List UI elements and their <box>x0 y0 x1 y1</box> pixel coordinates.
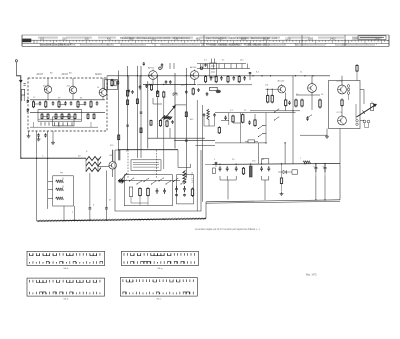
small blob component near S2 <box>210 87 221 93</box>
wire horizontal mid link <box>115 149 120 151</box>
wire driver stage bottom rail <box>250 110 300 112</box>
cluster below diagonal pot <box>150 120 174 128</box>
wire bus bottom-left chassis <box>37 219 206 221</box>
resistor R32 output <box>301 99 303 108</box>
svg-text:AF116: AF116 <box>148 67 155 70</box>
IF transformer can S2 <box>210 63 217 77</box>
switch contact driver 2 <box>274 117 279 121</box>
junction dots bottom bus <box>63 218 177 221</box>
resistor R31 output <box>295 99 297 108</box>
switch contact 4 <box>143 178 148 182</box>
capacitor C40 power <box>215 162 218 167</box>
switch contact audio 1 <box>258 125 266 129</box>
wire TS11 to rail <box>311 76 313 84</box>
wire mid link right <box>175 104 186 106</box>
front-end third mini row ticks <box>41 122 72 125</box>
thermistor column in output box <box>347 85 350 100</box>
transistor TS11 phase splitter <box>308 82 317 110</box>
extra top cluster verticals <box>201 64 248 69</box>
top cluster rail upper <box>197 63 246 65</box>
trimmer capacitor C1 on box edge <box>27 99 30 103</box>
wires from potentiometer box to bus <box>64 206 75 221</box>
dial scale lower meter-band numerals <box>40 43 377 46</box>
switch wafer SK-b bottom contact row <box>29 261 102 264</box>
pot box left entry stubs <box>48 182 53 199</box>
IF can S2 top stubs <box>212 59 215 64</box>
front-end component row1 item 9 (capacitor) <box>84 101 87 105</box>
wire driver stage rail <box>250 75 330 77</box>
switch row link wire <box>118 179 180 181</box>
IF cluster component 4 (capacitor) <box>220 76 223 81</box>
wire IF strip signal rail <box>107 75 250 77</box>
junction dots B+ rail <box>219 163 325 165</box>
switch wafer SK-v bottom contact row <box>123 292 193 295</box>
second small box around vertical zigzag <box>177 175 194 204</box>
junction dots on rail <box>252 75 313 76</box>
wire long vertical a <box>118 71 120 161</box>
electrolytic C47 power <box>322 164 326 176</box>
capacitor C42 power <box>226 166 229 171</box>
capacitor C31 driver emitter <box>288 101 291 105</box>
wire long vertical b2 <box>140 66 142 158</box>
wire power vertical x285 up <box>284 143 286 164</box>
output stage box <box>329 81 361 129</box>
components mounted on long verticals <box>118 90 188 141</box>
svg-text:AF116: AF116 <box>95 73 102 76</box>
IF cluster component 3 (resistor) <box>215 75 217 83</box>
component top right small <box>356 64 358 80</box>
wire x178 vertical <box>178 150 191 168</box>
IF cluster component 5 (resistor) <box>227 75 229 83</box>
wire detector rail <box>143 84 196 86</box>
svg-text:AC125: AC125 <box>278 80 285 83</box>
wire from TS4 up-right corner <box>113 150 178 162</box>
IF cluster component 1 (resistor) <box>205 75 207 83</box>
wire audio vertical x228 <box>228 113 230 125</box>
coil can box L6 <box>53 117 75 126</box>
transistor TS9 output upper <box>337 81 347 94</box>
svg-text:20 — 1,2 V: 20 — 1,2 V <box>191 172 193 183</box>
loudspeaker pointer arrow <box>357 104 377 117</box>
wire driver box corner <box>250 112 296 114</box>
capacitor C30 on rail <box>249 72 252 80</box>
capacitor C16 in switch box <box>163 188 166 194</box>
wire bus lower parallel line <box>206 201 340 203</box>
resistor R18 audio <box>232 115 234 123</box>
wire front-end upper rail <box>30 99 105 101</box>
second top rail <box>197 68 250 70</box>
transistor TS2 mixer <box>69 85 76 100</box>
transistor TS6 IF amplifier 2 <box>190 66 199 85</box>
front-end component row2 item 5 <box>68 113 70 119</box>
small rect component power left <box>212 168 215 174</box>
shield dot above TS6 <box>200 64 206 70</box>
wire bus step vertical <box>205 202 207 219</box>
resistor R22 driver bias <box>271 89 273 104</box>
wire vertical x197 <box>196 100 198 211</box>
switch wafer SK-g bottom contact row <box>124 261 194 264</box>
switch wafer SK-d top contact row <box>30 280 100 283</box>
capacitor C35 output <box>306 116 309 120</box>
switch contact 1 <box>121 180 126 184</box>
transistor TS8 driver <box>278 80 286 93</box>
switch contact 5 <box>151 181 156 185</box>
svg-text:SK-d: SK-d <box>63 298 69 300</box>
IF cluster component 2 (capacitor) <box>210 76 213 81</box>
wire oscillator to transistor <box>98 165 109 167</box>
resistor R14 right of switch box <box>191 188 193 197</box>
wire audio vertical x240 <box>240 113 242 143</box>
svg-text:AF117: AF117 <box>37 73 44 76</box>
wire B+ rail <box>213 163 341 166</box>
transistor TS3 oscillator <box>99 87 107 99</box>
resistor R19 audio <box>241 114 244 124</box>
trimmer capacitor C2 on box edge <box>27 108 30 112</box>
front-end horizontal mini links <box>34 104 86 117</box>
stubs above B+ rail <box>262 159 269 164</box>
IF can S1 top stubs <box>143 62 174 69</box>
capacitor C21 to bus <box>89 202 92 221</box>
switch wafer diagram SK-g box <box>121 251 198 265</box>
capacitor C15 in switch box <box>156 188 159 194</box>
resistor R34 between output transistors <box>341 99 343 117</box>
dial divider lines <box>204 35 345 46</box>
front-end lower connections <box>30 122 98 127</box>
front-end component row2 item 8 <box>93 113 95 119</box>
outer box oscillator-switch section <box>115 150 201 211</box>
wire audio vertical x266 <box>265 113 267 143</box>
resistor chain below TS6 <box>192 88 200 96</box>
inner box switch wafers <box>124 175 172 206</box>
wire front-end middle rail <box>30 112 105 114</box>
oscillator coil zigzag pack <box>86 157 101 173</box>
wire driver base <box>266 88 278 90</box>
wire long vertical b <box>136 66 138 158</box>
detector diode row <box>128 85 209 96</box>
potentiometer R3 zigzag <box>56 197 64 200</box>
switch wafer diagram SK-d box <box>27 278 105 296</box>
switch contact 3 <box>136 181 141 185</box>
top cluster rail lower <box>197 84 252 86</box>
svg-text:AF116: AF116 <box>190 66 197 69</box>
wire box top to rail <box>341 76 343 85</box>
switch contact audio 2 <box>258 133 266 137</box>
mixer output components <box>107 76 119 100</box>
wire long vertical a2 <box>127 66 129 150</box>
dial lower station text <box>40 44 270 47</box>
front-end component row2 item 4 <box>61 113 63 119</box>
wire stub rail to C d2 <box>139 76 141 90</box>
ground symbol output stage <box>325 129 329 139</box>
capacitor C6 below front-end <box>44 133 47 137</box>
wire bus right vertical <box>339 164 341 200</box>
transistor TS1 RF amplifier <box>44 85 51 100</box>
svg-text:PRAGUE · VIENNE · BUDAPEST · R: PRAGUE · VIENNE · BUDAPEST · ROME · MILA… <box>206 44 270 47</box>
switch contact 9 <box>180 181 185 185</box>
transistor TS10 output lower <box>337 112 347 125</box>
switch contact 8 <box>173 178 178 182</box>
IF cluster component 7 (resistor) <box>238 75 240 83</box>
resistor R42 power <box>242 167 244 175</box>
choke coil power <box>303 161 310 164</box>
dashed screening box front-end unit <box>28 78 107 131</box>
dial scale gray texture lower row <box>40 44 375 46</box>
resistor R33 output <box>319 99 321 109</box>
resistor R40 power tall <box>249 164 252 177</box>
capacitor C18 right of switch box <box>183 186 186 197</box>
link wire in IF module <box>148 137 205 139</box>
front-end component row1 item 11 (capacitor) <box>96 101 99 105</box>
svg-text:SK-b: SK-b <box>63 268 69 270</box>
front-end component row2 item 1 <box>41 113 43 119</box>
IF module tall wire left <box>147 81 149 148</box>
wire long vertical d <box>185 68 187 178</box>
svg-text:SK-g: SK-g <box>157 268 163 270</box>
wire stub rail to C d1 <box>128 76 130 89</box>
front-end component row2 item 2 <box>47 113 49 119</box>
potentiometer R volume zigzag <box>56 178 64 184</box>
wire inside coil can <box>38 118 82 120</box>
capacitor C44 power <box>260 166 263 171</box>
svg-text:AF117: AF117 <box>62 73 69 76</box>
capacitor C26 audio <box>224 116 227 120</box>
AGC line resistors <box>163 91 165 169</box>
ground symbol power <box>280 192 284 195</box>
bus braid hatching <box>39 217 206 222</box>
volume potentiometer diagonal zigzag <box>160 106 176 122</box>
front-end component row1 item 1 (resistor) <box>32 101 34 109</box>
front-end component row1 item 6 (capacitor) <box>64 101 67 105</box>
link wire third <box>196 145 216 147</box>
dial scale frame <box>22 35 389 46</box>
transistor TS4 converter <box>109 155 117 169</box>
antenna coupling coil L1 <box>21 90 24 102</box>
dial scale frequency numerals row <box>40 37 381 40</box>
diagonal pot below TS4 <box>118 173 127 183</box>
wire vertical x157 solid <box>156 98 158 138</box>
driver area extra elements <box>221 114 256 127</box>
switch contact tone <box>306 115 311 119</box>
shield dot above TS5 <box>159 67 163 70</box>
switch contact driver 1 <box>274 109 279 113</box>
front-end component row1 item 7 (capacitor) <box>70 101 73 105</box>
junction dots misc crossings <box>20 75 293 159</box>
dial scale gray texture upper row <box>38 37 382 39</box>
wire output stage mid <box>296 95 327 135</box>
wire output to B+ vertical <box>339 129 341 164</box>
wire left section vertical 1 <box>36 131 38 221</box>
verticals from osc cluster down <box>90 171 107 204</box>
front-end component row2 item 6 <box>74 113 76 119</box>
switch wafer SK-v top contact row <box>123 279 193 282</box>
electrolytic C46 power <box>313 164 317 176</box>
potentiometer R tone zigzag <box>56 186 64 192</box>
IF cluster component 6 (capacitor) <box>233 76 236 81</box>
svg-text:La tension réglée est de 9 V e: La tension réglée est de 9 V environ par… <box>195 228 260 231</box>
resistor R23 driver emitter <box>285 93 287 111</box>
link wire second <box>174 140 215 142</box>
ground symbol below front-end mid <box>51 131 55 144</box>
svg-text:Mat. 1475: Mat. 1475 <box>306 274 317 277</box>
resistor R20 audio low <box>218 126 220 134</box>
wire switch box bottom stubs <box>131 197 148 205</box>
svg-text:16 m 19 m 25 m 31: 16 m 19 m 25 m 31 m 41 m 49 m <box>40 44 75 47</box>
dial right end box detail <box>358 36 386 40</box>
oscillator tank box above TS3 <box>105 80 118 90</box>
output terminal circles <box>356 120 370 128</box>
capacitor C41 power <box>219 166 222 171</box>
ground symbol below front-end left <box>27 131 31 138</box>
IF cluster component 8 (capacitor) <box>243 76 246 81</box>
wire audio down x258 <box>258 143 260 164</box>
wire box to jack links <box>360 90 365 121</box>
transistor TS5 IF amplifier 1 <box>148 67 157 86</box>
vertical zigzag resistor right of switch box <box>183 171 186 185</box>
front-end component row1 item 8 (resistor) <box>77 101 79 109</box>
potentiometer box volume/tone <box>53 176 74 206</box>
front-end component row1 item 2 (capacitor) <box>39 101 42 105</box>
resistor R41 to ground <box>280 164 282 192</box>
switch contact 6 <box>158 178 163 182</box>
dial scale band name text <box>120 37 278 40</box>
resistor R11 in switch box <box>129 187 132 203</box>
wire driver vertical x293 <box>292 76 294 164</box>
resistor R21 driver bias <box>267 89 269 104</box>
wire in place of TS7 <box>169 128 171 138</box>
capacitor C45 power <box>267 166 270 171</box>
wire output right vertical <box>355 104 357 120</box>
capacitor C22 to bus <box>105 203 108 221</box>
wire left section vertical 2 <box>47 131 49 209</box>
wire below TS4 <box>112 169 114 177</box>
label above front-end box <box>37 72 103 76</box>
vertical measurement text 20-1.2V <box>191 172 193 183</box>
capacitor C43 power <box>235 166 238 171</box>
dial scale tick marks <box>37 40 388 43</box>
wire audio box bottom <box>215 112 250 114</box>
front-end component row1 item 4 (capacitor) <box>52 101 55 105</box>
tiny component value labels scattered <box>33 60 324 175</box>
tiny labels near bottom bus <box>42 156 112 214</box>
capacitor C17 right of switch box <box>175 186 178 197</box>
wire stub rail to C d3 <box>157 76 159 90</box>
wire antenna input vertical <box>15 60 86 159</box>
wire bus bottom-right <box>206 200 340 202</box>
earphone jack component <box>371 102 374 111</box>
switch wafer SK-g top contact row <box>124 253 194 256</box>
dial scale left end label block <box>22 39 34 44</box>
front-end component row1 item 3 (resistor) <box>45 101 47 109</box>
zener diode regulator <box>278 170 298 174</box>
wire vertical x202 <box>201 105 203 202</box>
mechanical link dashed line 1 <box>127 150 129 178</box>
switch contact 7 <box>165 181 170 185</box>
wire stub rail to C d4 <box>185 76 187 90</box>
coil can box L5 <box>38 110 82 122</box>
capacitor C5 below front-end <box>37 133 41 141</box>
switch wafer diagram SK-b box <box>27 251 105 265</box>
mechanical link dashed line 2 <box>156 150 158 178</box>
cluster below TS5 <box>145 80 171 97</box>
switch contact 2 <box>129 178 134 182</box>
shield stubs above front-end transistors <box>48 78 103 89</box>
front-end component row1 item 5 (resistor) <box>58 101 60 109</box>
wire audio bottom rail <box>215 142 266 144</box>
power rail extra stubs <box>220 176 326 201</box>
front-end component row2 item 7 <box>87 113 89 119</box>
switch wafer diagram SK-v box <box>120 278 197 297</box>
coil box ferrite antenna <box>131 160 161 171</box>
AGC filter column <box>203 109 216 126</box>
IF module tall wire right <box>174 73 176 149</box>
switch wafer SK-b top contact row <box>30 253 100 256</box>
switch wafer SK-d bottom contact row <box>30 292 101 295</box>
capacitor on B+ start <box>205 163 213 165</box>
electrolytic capacitor C28 horizontal <box>245 140 258 143</box>
resistor R13 in switch box <box>147 187 150 196</box>
AF preamp link wires <box>153 98 162 104</box>
resistor R12 in switch box <box>139 187 142 196</box>
front-end component row1 item 10 (resistor) <box>90 101 92 109</box>
front-end component row2 item 3 <box>55 113 57 119</box>
